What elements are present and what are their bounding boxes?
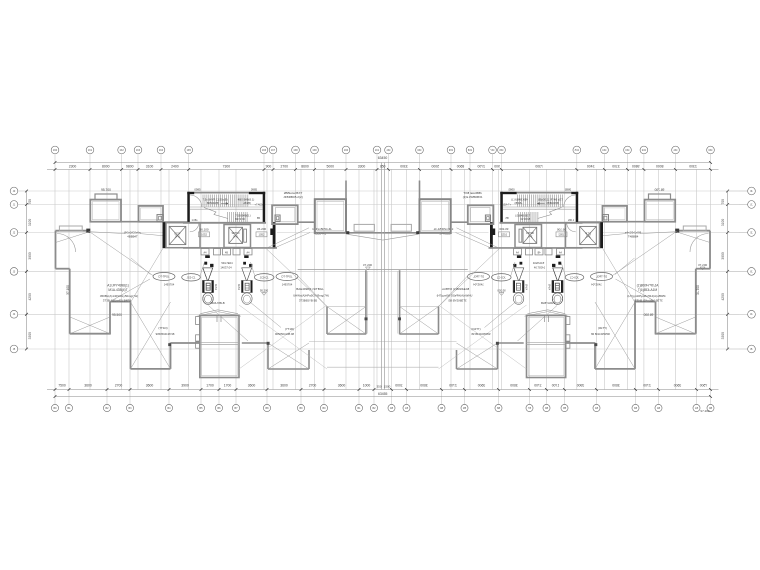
- wall: [130, 302, 132, 369]
- dim tick: [272, 168, 275, 171]
- grid line bottom axis 5: [168, 170, 170, 405]
- grid line axis 11: [345, 154, 347, 389]
- grid line axis 6: [188, 154, 190, 389]
- leader: [90, 232, 126, 234]
- wall: [171, 342, 200, 344]
- dim tick: [54, 395, 57, 398]
- grid line bottom axis 7: [218, 170, 220, 405]
- V drain line: [348, 234, 383, 240]
- svg-text:0985: 0985: [251, 187, 258, 191]
- svg-text:1700: 1700: [224, 384, 232, 388]
- axis bubble top 7: [260, 146, 268, 154]
- leader: [266, 248, 327, 306]
- wall: [56, 230, 90, 232]
- axis bubble bottom 11: [320, 404, 327, 411]
- parapet cap: [95, 194, 117, 200]
- svg-text:45/45: 45/45: [238, 283, 241, 290]
- callout lens: [153, 273, 175, 281]
- dim tick: [137, 168, 140, 171]
- svg-text:7500: 7500: [58, 384, 66, 388]
- svg-text:37.100: 37.100: [66, 285, 70, 295]
- window box: [196, 342, 200, 348]
- grid line bottom axis 9: [266, 170, 268, 405]
- svg-text:JC0-C1: JC0-C1: [260, 276, 269, 280]
- grid line axis 10: [314, 154, 316, 389]
- grid line axis 3: [121, 154, 123, 389]
- svg-text:DT-TPGL: DT-TPGL: [282, 275, 294, 279]
- axis bubble bottom 6: [197, 404, 204, 411]
- svg-text:1K6: 1K6: [262, 149, 267, 152]
- grid line axis 7: [263, 154, 265, 389]
- segment dim line top: [47, 169, 383, 171]
- axis bubble top 3: [118, 146, 126, 154]
- canopy ridge: [200, 310, 238, 314]
- flue funnel symbol definition: [203, 255, 214, 304]
- dim tick: [106, 388, 109, 391]
- axis bubble left 2: [10, 201, 18, 209]
- svg-text:JFBRB05.2(2): JFBRB05.2(2): [283, 195, 303, 199]
- stair door swing lower: [190, 223, 199, 232]
- svg-text:700: 700: [721, 199, 725, 205]
- grid row line: [27, 232, 167, 234]
- chimney wall: [345, 181, 347, 200]
- grid line axis 4: [137, 154, 139, 389]
- vent box 2: [214, 249, 221, 255]
- axis bubble bottom 12: [355, 404, 362, 411]
- corridor wall inner: [367, 271, 369, 333]
- svg-text:JFYL: JFYL: [233, 235, 239, 238]
- small shaft inner: [159, 216, 162, 220]
- svg-text:3100: 3100: [28, 219, 32, 227]
- svg-text:DT-TPGL: DT-TPGL: [159, 275, 171, 279]
- svg-text:8000: 8000: [102, 164, 110, 168]
- room box A inner: [92, 202, 119, 220]
- svg-text:1493704: 1493704: [164, 282, 175, 286]
- svg-text:7.5B B4B(5.): 7.5B B4B(5.): [235, 213, 250, 217]
- grid row line: [27, 204, 383, 206]
- axis bubble left 4: [10, 268, 18, 276]
- axis bubble bottom 1: [51, 404, 58, 411]
- svg-text:450Bx(A)14Pa5Gy50mg(7H): 450Bx(A)14Pa5Gy50mg(7H): [100, 294, 138, 298]
- black door flag: [270, 229, 273, 236]
- grid line axis 12: [376, 154, 378, 389]
- svg-text:M1A-43B(4)T: M1A-43B(4)T: [108, 288, 127, 292]
- axis stub: [18, 313, 27, 315]
- annex box: [272, 205, 298, 224]
- svg-text:3300: 3300: [358, 164, 366, 168]
- leader: [131, 248, 163, 301]
- dim tick: [266, 388, 269, 391]
- black wall: [187, 192, 194, 194]
- level mark: [262, 293, 267, 296]
- leader: [209, 306, 249, 342]
- vent box 4: [233, 249, 240, 255]
- axis bubble left 6: [10, 345, 18, 353]
- flue funnel 2: [241, 255, 252, 304]
- leader: [131, 258, 151, 275]
- window box: [196, 335, 200, 341]
- dim tick: [129, 388, 132, 391]
- svg-text:1K2: 1K2: [119, 149, 124, 152]
- svg-text:0985: 0985: [194, 187, 201, 191]
- svg-text:4200: 4200: [721, 293, 725, 301]
- svg-text:3600: 3600: [248, 384, 256, 388]
- wall: [70, 333, 111, 335]
- callout ellipse: [254, 274, 274, 281]
- svg-text:B05048(B): B05048(B): [207, 202, 219, 205]
- svg-text:1700: 1700: [206, 384, 214, 388]
- axis stub: [18, 204, 27, 206]
- small shaft box right: [275, 215, 280, 221]
- grid line axis 1: [54, 154, 56, 389]
- room box B inner: [141, 208, 162, 220]
- svg-text:36.100: 36.100: [199, 228, 209, 232]
- grid line axis 2: [89, 154, 91, 389]
- grid line bottom axis 6: [200, 170, 202, 405]
- svg-text:700: 700: [28, 199, 32, 205]
- axis bubble bottom 7: [215, 404, 222, 411]
- svg-text:1K7: 1K7: [271, 149, 276, 152]
- wall: [308, 350, 310, 369]
- wall: [56, 268, 70, 270]
- svg-text:1K4: 1K4: [159, 149, 164, 152]
- svg-text:3300: 3300: [28, 332, 32, 340]
- axis bubble left 1: [10, 187, 18, 195]
- vent box 5: [244, 249, 252, 255]
- elevator shaft: [224, 225, 251, 248]
- room box A: [90, 200, 121, 222]
- svg-text:95.200: 95.200: [260, 288, 269, 292]
- stair treads lower flight: [228, 212, 248, 223]
- svg-text:1052: 1052: [201, 233, 207, 237]
- leader: [266, 228, 309, 249]
- dim tick: [168, 388, 171, 391]
- svg-text:1500: 1500: [384, 384, 391, 388]
- dim tick: [235, 388, 238, 391]
- axis bubble top 1: [51, 146, 59, 154]
- svg-text:905050413B 98: 905050413B 98: [275, 332, 294, 336]
- leader: [276, 233, 311, 248]
- svg-text:2700: 2700: [115, 384, 123, 388]
- svg-text:2700: 2700: [309, 384, 317, 388]
- wall: [69, 269, 71, 334]
- black wall stair right: [263, 192, 266, 223]
- window box: [196, 317, 200, 325]
- svg-text:3600: 3600: [280, 384, 288, 388]
- elevator equipment X: [229, 227, 243, 243]
- svg-text:3600: 3600: [146, 384, 154, 388]
- svg-text:54G7E04: 54G7E04: [221, 261, 233, 265]
- window box: [59, 226, 82, 231]
- axis bubble top 6: [185, 146, 193, 154]
- axis stub: [18, 232, 27, 234]
- junction dot: [267, 342, 270, 345]
- callout ellipse: [182, 274, 201, 281]
- svg-text:1493704: 1493704: [282, 282, 293, 286]
- grid row line: [27, 313, 383, 315]
- dim tick: [160, 168, 163, 171]
- corridor wall: [183, 247, 277, 249]
- svg-text:1052: 1052: [259, 233, 265, 237]
- open X: [327, 307, 366, 335]
- svg-text:3100: 3100: [721, 219, 725, 227]
- segment dim line bottom: [47, 389, 383, 391]
- elevator equipment frame: [229, 227, 243, 243]
- leader: [251, 262, 255, 276]
- wall to center box: [298, 221, 315, 223]
- axis bubble bottom 4: [126, 404, 133, 411]
- axis bubble left 3: [10, 229, 18, 237]
- svg-text:1K3: 1K3: [136, 149, 141, 152]
- svg-text:95.500: 95.500: [112, 313, 122, 317]
- svg-text:350: 350: [376, 384, 381, 388]
- left half of symmetric plan: [10, 146, 383, 411]
- terrace walls: [200, 316, 239, 378]
- thin level line: [309, 341, 383, 343]
- tag box: [256, 232, 267, 237]
- grid row line: [27, 348, 383, 350]
- axis stub: [18, 348, 27, 350]
- canopy ridge 2: [197, 312, 241, 317]
- svg-text:97.200: 97.200: [700, 409, 710, 413]
- wall between boxes: [121, 221, 139, 223]
- leader: [298, 276, 328, 307]
- callout lens: [276, 273, 298, 281]
- svg-text:850: 850: [380, 164, 386, 168]
- terrace mid wall line: [200, 343, 239, 345]
- axis bubble top 10: [311, 146, 319, 154]
- axis bubble top 5: [157, 146, 165, 154]
- flue funnel 1: [203, 255, 214, 304]
- axis bubble bottom 9: [263, 404, 270, 411]
- dim tick: [54, 161, 57, 164]
- junction dot: [346, 231, 349, 234]
- vent box 3: [223, 249, 231, 255]
- right vertical dim ladder: [727, 191, 729, 349]
- grid line bottom axis 4: [129, 170, 131, 405]
- mirrored right half: [383, 146, 756, 411]
- svg-text:4BBB4T: 4BBB4T: [127, 234, 138, 238]
- svg-text:8600: 8600: [301, 164, 309, 168]
- stair door swing: [190, 195, 202, 207]
- junction dot: [168, 343, 171, 346]
- svg-text:37.200: 37.200: [363, 263, 373, 267]
- svg-text:2BBtotal BXT: 2BBtotal BXT: [284, 191, 303, 195]
- junction: [86, 229, 90, 233]
- equipment X: [169, 226, 186, 244]
- svg-text:95.700: 95.700: [101, 188, 111, 192]
- corridor wall: [365, 270, 367, 334]
- dim tick: [54, 168, 57, 171]
- core floor wall: [183, 222, 266, 224]
- wall: [109, 302, 111, 334]
- dim tick: [218, 388, 221, 391]
- door slot: [244, 229, 247, 242]
- svg-text:900: 900: [266, 164, 272, 168]
- wall: [268, 368, 309, 370]
- svg-text:JC0-C1: JC0-C1: [187, 276, 196, 280]
- left vertical dim ladder: [26, 191, 28, 349]
- axis bubble bottom 3: [103, 404, 110, 411]
- grid row line: [27, 270, 383, 272]
- svg-text:21RHYBLB: 21RHYBLB: [210, 301, 224, 305]
- stair up arrow: [221, 202, 228, 204]
- svg-text:3900: 3900: [181, 384, 189, 388]
- vent box 1: [201, 249, 209, 255]
- open-to-below X mark: [70, 317, 110, 334]
- dim tick: [200, 388, 203, 391]
- grid line axis 9: [295, 154, 297, 389]
- svg-text:+B4(B): +B4(B): [243, 202, 251, 205]
- room box B: [139, 206, 164, 222]
- annex inner: [276, 208, 295, 222]
- door swing arc left wing: [57, 234, 76, 253]
- big X leader: [239, 305, 327, 369]
- leader: [140, 234, 166, 236]
- svg-text:1K5: 1K5: [187, 149, 192, 152]
- svg-text:3T3B NB(m45) B4PB: 3T3B NB(m45) B4PB: [103, 299, 132, 303]
- equipment box frame: [169, 226, 186, 244]
- dim tick: [89, 168, 92, 171]
- leader: [90, 232, 154, 276]
- wall: [242, 342, 268, 344]
- svg-text:JFYL: JFYL: [175, 236, 181, 239]
- terrace inner line: [202, 317, 238, 375]
- svg-text:5000: 5000: [326, 164, 334, 168]
- terrace mid wall line: [200, 341, 239, 343]
- svg-text:9050504138 98: 9050504138 98: [156, 332, 175, 336]
- wall: [267, 343, 269, 369]
- dim tick: [54, 388, 57, 391]
- grid stub bottom axis 1: [54, 390, 56, 405]
- svg-text:63450: 63450: [378, 156, 388, 160]
- svg-text:1K9: 1K9: [312, 149, 317, 152]
- grid line bottom axis 13: [373, 170, 375, 405]
- svg-text:+7.4(2): +7.4(2): [255, 204, 263, 207]
- grid line bottom axis 11: [323, 170, 325, 405]
- black wall annex: [273, 222, 276, 248]
- svg-text:36.200: 36.200: [257, 227, 267, 231]
- svg-text:1K0: 1K0: [53, 149, 58, 152]
- svg-text:37.200: 37.200: [698, 263, 708, 267]
- svg-text:45/45: 45/45: [215, 283, 218, 290]
- grid line bottom axis 8: [235, 170, 237, 405]
- stair break line: [204, 208, 228, 219]
- svg-text:1000: 1000: [363, 384, 371, 388]
- expansion joint wall line 2: [383, 163, 385, 390]
- svg-text:3900: 3900: [721, 252, 725, 260]
- axis stub: [18, 190, 27, 192]
- svg-text:1K1: 1K1: [88, 149, 93, 152]
- grid line axis 5: [160, 154, 162, 389]
- svg-text:(7T1D): (7T1D): [158, 326, 167, 330]
- svg-text:3T3B65YB B5: 3T3B65YB B5: [299, 299, 318, 303]
- stair top wall: [194, 192, 249, 194]
- axis bubble top 12: [373, 146, 381, 154]
- grid row line: [27, 190, 383, 192]
- dim tick: [300, 388, 303, 391]
- axis bubble top 2: [86, 146, 94, 154]
- axis bubble bottom 10: [297, 404, 304, 411]
- center wall: [346, 232, 383, 234]
- dim tick: [373, 388, 376, 391]
- grid line bottom axis 2: [68, 170, 70, 405]
- dim tick: [313, 168, 316, 171]
- leader: [250, 302, 281, 328]
- door jamb: [216, 316, 218, 323]
- wall: [55, 231, 57, 269]
- axis bubble left 5: [10, 310, 18, 318]
- center box: [315, 199, 346, 233]
- svg-text:3600: 3600: [84, 384, 92, 388]
- center floor line: [298, 269, 383, 271]
- svg-text:3600: 3600: [338, 384, 346, 388]
- svg-text:1K0: 1K0: [344, 149, 349, 152]
- svg-text:4BX B4B(6.1): 4BX B4B(6.1): [238, 198, 255, 202]
- svg-text:3900: 3900: [28, 252, 32, 260]
- svg-text:1.08s: 1.08s: [191, 219, 198, 222]
- dim tick: [294, 168, 297, 171]
- black wall stair left: [187, 192, 190, 223]
- grid line axis 8: [272, 154, 274, 389]
- wall: [170, 343, 172, 369]
- leader: [56, 232, 90, 243]
- svg-text:2400: 2400: [171, 164, 179, 168]
- dim tick: [358, 388, 361, 391]
- wall: [131, 368, 171, 370]
- grid line bottom axis 12: [358, 170, 360, 405]
- black wall: [249, 192, 265, 194]
- leader: [200, 262, 205, 276]
- svg-text:7300: 7300: [223, 164, 231, 168]
- wall: [110, 301, 131, 303]
- expansion joint wall line 1: [381, 163, 383, 390]
- open X: [268, 343, 309, 369]
- grid row line: [277, 232, 383, 234]
- dim tick: [323, 388, 326, 391]
- axis bubble bottom 8: [232, 404, 239, 411]
- svg-text:BAE4998(1) 9ITBGL: BAE4998(1) 9ITBGL: [296, 287, 324, 291]
- small shaft box: [157, 215, 163, 222]
- svg-text:2300: 2300: [69, 164, 77, 168]
- svg-text:7.5x B4YR 11.50x(B): 7.5x B4YR 11.50x(B): [202, 198, 227, 202]
- overall dim line top: [55, 162, 383, 164]
- thin top: [327, 306, 366, 308]
- dim tick: [345, 168, 348, 171]
- junction dot: [365, 317, 368, 320]
- open-to-below X mark: [131, 302, 171, 369]
- axis bubble top 11: [342, 146, 350, 154]
- axis bubble top 4: [134, 146, 142, 154]
- svg-text:9800: 9800: [126, 164, 134, 168]
- svg-text:(7T1D): (7T1D): [285, 327, 294, 331]
- svg-text:63455: 63455: [378, 392, 388, 396]
- axis stub: [18, 270, 27, 272]
- tag box: [199, 232, 210, 237]
- wall to stair: [163, 221, 187, 223]
- wall: [326, 307, 328, 335]
- svg-text:1K8: 1K8: [293, 149, 298, 152]
- black wall machine room left: [163, 222, 167, 248]
- svg-text:B4YR 90: B4YR 90: [235, 218, 245, 221]
- axis bubble top 9: [292, 146, 300, 154]
- svg-text:2700: 2700: [280, 164, 288, 168]
- dim tick: [120, 168, 123, 171]
- svg-text:1K1: 1K1: [375, 149, 380, 152]
- axis bubble bottom 2: [65, 404, 72, 411]
- axis bubble top 8: [269, 146, 277, 154]
- stair landing line: [190, 206, 263, 208]
